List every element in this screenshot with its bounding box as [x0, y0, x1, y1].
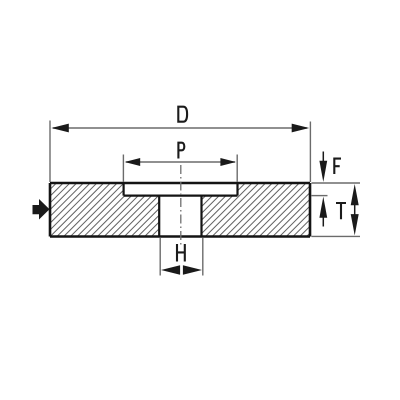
centerline (dash-dot)	[180, 165, 182, 246]
dimension D arrow right	[292, 124, 310, 133]
label F	[333, 158, 341, 174]
dimension P arrow left	[125, 158, 141, 166]
dimension H extension line left	[159, 238, 161, 276]
label H	[177, 244, 185, 262]
label D	[177, 106, 187, 123]
recess outline	[124, 183, 238, 196]
wheel body (hatched cross-section)	[50, 183, 310, 237]
hole (arbor bore, width H)	[159, 196, 201, 237]
dimension P line	[126, 161, 235, 163]
dimension P extension line left	[122, 155, 124, 183]
label P	[177, 142, 184, 159]
recess-depth extension line right (for F)	[312, 195, 328, 197]
label T	[336, 203, 346, 219]
recess (white pocket, width P)	[124, 183, 238, 196]
dimension D line	[53, 127, 307, 129]
bottom extension line right (for T)	[312, 235, 361, 237]
dimension H extension line right	[202, 238, 204, 276]
dimension H double arrow	[161, 265, 202, 275]
dimension F lower arrow (points up)	[319, 197, 327, 227]
feed direction arrow (solid black, left of wheel)	[33, 199, 50, 220]
dimension D arrow left	[51, 124, 69, 133]
dimension T double arrow	[351, 184, 359, 235]
top extension line right (for F and T)	[312, 182, 361, 184]
dimension P arrow right	[220, 158, 236, 166]
dimension D extension line right	[309, 122, 311, 183]
dimension P extension line right	[236, 155, 238, 183]
dimension D extension line left	[49, 121, 51, 183]
body outline	[50, 183, 310, 237]
hole outline	[159, 196, 201, 237]
dimension F upper arrow (points down)	[319, 152, 327, 183]
